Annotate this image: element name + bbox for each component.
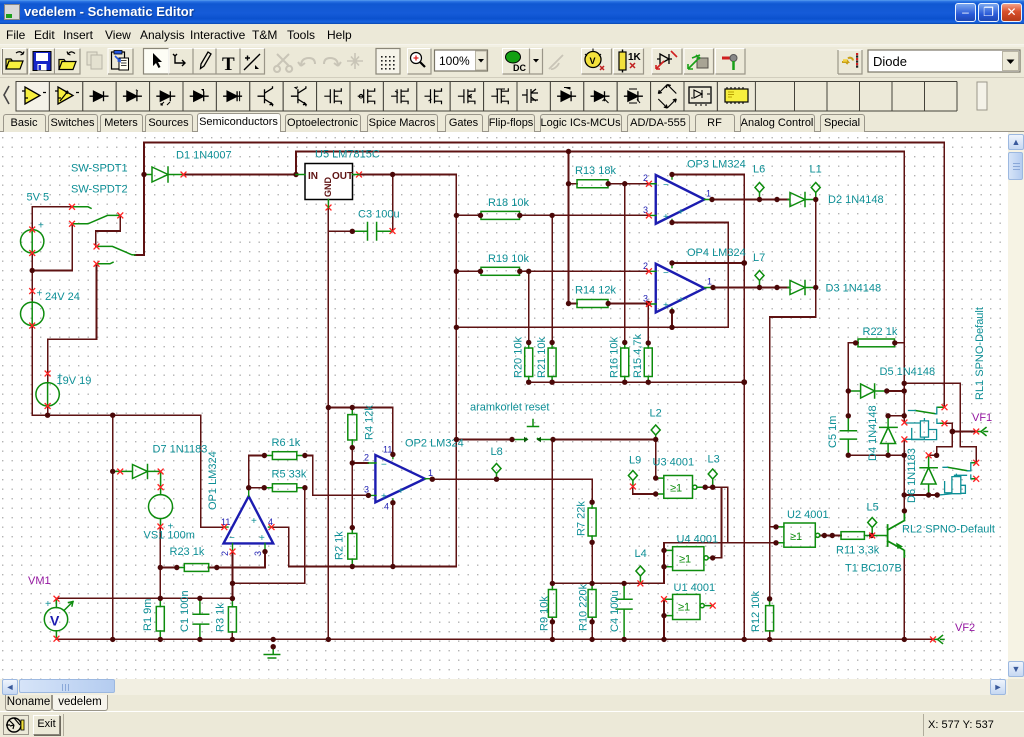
svg-text:VF2: VF2: [955, 622, 975, 634]
VF2 output pin: [933, 635, 944, 643]
palette cell small diode: [550, 82, 583, 112]
svg-text:R14 12k: R14 12k: [575, 285, 616, 297]
tab row: [0, 113, 1024, 132]
wire OP4 output row: [713, 287, 788, 289]
wire +19V rail y415: [32, 414, 201, 416]
svg-text:D5 1N4148: D5 1N4148: [880, 366, 936, 378]
button zoom: [408, 49, 432, 75]
svg-text:−: −: [663, 268, 669, 279]
op-amp OP3 LM324: [656, 175, 705, 224]
svg-text:L1: L1: [810, 164, 822, 176]
op-amp pin stubs OP1: [224, 488, 271, 551]
svg-text:C4 100u: C4 100u: [609, 590, 621, 632]
svg-text:VF1: VF1: [972, 412, 992, 424]
svg-text:+: +: [168, 522, 174, 533]
button open prev: [55, 49, 80, 75]
resistor R15 4,7k: [644, 348, 652, 377]
wire U4 input column: [552, 543, 664, 584]
op-amp OP2 LM324: [375, 455, 425, 502]
svg-text:V: V: [50, 613, 60, 629]
gate U3 4001: [664, 476, 693, 499]
palette cell triac: [617, 82, 650, 112]
wire RL2 coil rail y495: [904, 494, 937, 496]
svg-text:R16 10k: R16 10k: [609, 337, 621, 378]
wire OP2 output row: [432, 479, 592, 502]
palette cell NMOS: [317, 82, 350, 112]
diode D6 1N1183: [920, 455, 937, 495]
svg-text:U2 4001: U2 4001: [787, 509, 829, 521]
wire R7 to R10: [591, 542, 593, 583]
svg-text:≥1: ≥1: [678, 602, 690, 614]
svg-text:U4 4001: U4 4001: [677, 534, 719, 546]
reset switch contacts: [512, 420, 553, 440]
svg-text:U3 4001: U3 4001: [653, 457, 695, 469]
component toolbar: [0, 78, 1024, 113]
wire top rail 2: [296, 151, 904, 153]
capacitor C3 100u: [352, 223, 391, 241]
wire R22 row: [848, 343, 904, 391]
svg-text:−: −: [381, 460, 387, 471]
relay RL2 contact arm: [948, 463, 976, 479]
button wire tool: [169, 49, 193, 75]
button copy disabled: [87, 52, 102, 69]
wire R6 right to OP2 plus: [305, 456, 369, 496]
capacitor C1 100n: [193, 598, 209, 639]
svg-text:T: T: [222, 54, 235, 75]
wire R3 bottom: [231, 632, 233, 639]
wire U2 in2 row: [664, 542, 776, 544]
palette cell varicap: [216, 82, 249, 112]
button probe disabled: [549, 55, 563, 69]
svg-text:Diode: Diode: [873, 54, 907, 69]
title bar: [0, 0, 1024, 24]
wire U4 out riser: [713, 487, 722, 558]
wire VS1 bottom column: [159, 526, 161, 598]
palette cell schottky: [183, 82, 216, 112]
resistor R2 1k: [348, 533, 357, 559]
wire SPDT2 to 19V: [48, 264, 97, 374]
wire R5 right column: [233, 488, 305, 584]
palette cell rectifier block: [684, 82, 717, 112]
svg-text:U5 LM7815C: U5 LM7815C: [315, 149, 380, 161]
wire x904 relay column lower: [903, 440, 905, 511]
ground symbol: [264, 647, 280, 658]
svg-text:L2: L2: [650, 408, 662, 420]
palette cell opamp 2: [49, 82, 82, 112]
svg-text:R9 10k: R9 10k: [539, 596, 551, 631]
svg-text:2: 2: [364, 453, 369, 463]
label pin L2 diamond: [651, 425, 660, 439]
wire R12 bottom: [769, 631, 771, 640]
wire R13 row: [569, 183, 650, 185]
op-amp OP4 LM324: [656, 264, 705, 313]
wire OP4 V+ stub: [672, 262, 744, 264]
status bar: [0, 711, 1024, 737]
button undo disabled: [298, 58, 315, 66]
svg-text:−: −: [663, 180, 669, 191]
resistor R22 1k: [858, 339, 895, 347]
wire V1 V2 column: [31, 207, 33, 415]
wire y407 to OP2 pin11: [328, 408, 393, 455]
gate U1 4001: [673, 594, 700, 619]
wire V1 bottom to SPDT1 contact: [32, 224, 72, 271]
svg-text:IN: IN: [308, 171, 318, 182]
wire D1 anode column: [135, 143, 144, 256]
svg-text:DC: DC: [513, 63, 526, 73]
resistor R14 12k: [577, 300, 608, 308]
switch SW-SPDT1 contact stub: [72, 207, 91, 209]
svg-text:D2 1N4148: D2 1N4148: [828, 194, 884, 206]
source VS1 100m: [149, 495, 173, 519]
zoom combobox: [435, 50, 488, 71]
button pin tool: [716, 49, 746, 75]
wire R23 row: [160, 552, 265, 568]
palette cell NJFET: [383, 82, 416, 112]
component combobox Diode: [868, 50, 1020, 72]
wire x112 column: [112, 415, 114, 639]
svg-text:R20 10k: R20 10k: [513, 337, 525, 378]
wire OP3 V- run: [456, 223, 728, 328]
resistor R19 10k: [481, 267, 520, 275]
svg-text:R15 4,7k: R15 4,7k: [632, 333, 644, 378]
svg-text:+: +: [38, 221, 44, 232]
palette cell IC chip: [717, 82, 755, 112]
svg-text:R13 18k: R13 18k: [575, 165, 616, 177]
wire R18 row: [456, 214, 649, 216]
relay RL1 contact arm: [915, 407, 943, 423]
wire V3 leads: [47, 374, 49, 416]
palette cell zener: [116, 82, 149, 112]
svg-text:R6 1k: R6 1k: [272, 437, 301, 449]
button cursor pressed: [144, 49, 170, 75]
svg-text:R4 12k: R4 12k: [364, 405, 376, 440]
svg-text:D1 1N4007: D1 1N4007: [176, 150, 232, 162]
wire U5 OUT run: [359, 174, 456, 176]
wire R10 bottom: [591, 617, 593, 639]
switch SW-SPDT2 contact stub: [97, 262, 114, 264]
wire U5 GND down: [328, 208, 352, 232]
resistor R21 10k: [548, 348, 556, 377]
resistor R5 33k: [272, 484, 296, 492]
svg-text:L9: L9: [629, 455, 641, 467]
svg-text:2: 2: [220, 551, 230, 556]
palette cell NPN: [250, 82, 283, 112]
label pin L6 diamond: [755, 183, 764, 200]
wire U1 input column: [663, 599, 665, 639]
svg-text:OP4 LM324: OP4 LM324: [687, 247, 746, 259]
wire OP4 V- stub: [671, 311, 673, 327]
toolbar row 1: [0, 44, 1024, 78]
X pin marks: [181, 172, 186, 177]
op-amp pin stubs OP2: [368, 455, 431, 503]
svg-text:D6 1N1183: D6 1N1183: [906, 448, 918, 503]
wire GND column x328: [327, 231, 329, 639]
canvas with schematic: [0, 132, 1008, 679]
resistor R12 10k: [766, 606, 774, 631]
resistor R1 9m: [156, 607, 164, 632]
svg-text:−: −: [229, 533, 235, 544]
svg-text:L4: L4: [635, 548, 647, 560]
diode D3 1N4148: [788, 281, 815, 295]
voltage source V3 19V: [36, 383, 59, 406]
svg-text:R5 33k: R5 33k: [272, 469, 307, 481]
gate U4 4001: [673, 547, 704, 571]
svg-text:+: +: [57, 372, 63, 383]
svg-text:100%: 100%: [439, 54, 470, 68]
wire L3 node to U2: [705, 487, 728, 543]
svg-text:+: +: [678, 207, 684, 218]
voltage source V1 5V: [21, 230, 44, 253]
svg-text:L8: L8: [491, 446, 503, 458]
menu bar: [0, 24, 1024, 44]
wire x624 R16 column: [624, 184, 626, 343]
svg-text:R12 10k: R12 10k: [750, 591, 762, 632]
svg-text:+: +: [678, 295, 684, 306]
svg-text:1: 1: [707, 277, 712, 287]
svg-text:L5: L5: [867, 502, 879, 514]
wire C5 top link: [847, 391, 849, 416]
svg-text:R10 220k: R10 220k: [578, 583, 590, 631]
svg-text:RL1 SPNO-Default: RL1 SPNO-Default: [974, 307, 986, 400]
reset switch arrow ticks: [524, 437, 529, 443]
svg-text:SW-SPDT1: SW-SPDT1: [71, 163, 128, 175]
svg-text:RL2 SPNO-Default: RL2 SPNO-Default: [902, 524, 995, 536]
button open: [2, 49, 28, 75]
palette cell opamp (selected): [16, 82, 49, 112]
button redo disabled: [324, 58, 341, 66]
resistor R7 22k: [588, 508, 596, 536]
svg-text:24V 24: 24V 24: [45, 291, 80, 303]
diode D1 1N4007: [144, 167, 184, 182]
svg-text:1: 1: [428, 468, 433, 478]
palette left nav chevron: [4, 86, 9, 104]
junction dots: [141, 172, 146, 177]
wire RL1 feed y383: [904, 383, 976, 462]
svg-text:GND: GND: [323, 177, 333, 198]
button save: [30, 49, 55, 75]
wire x568 column: [568, 152, 570, 304]
resistor R16 10k: [621, 348, 629, 377]
wire D4 top link: [888, 415, 904, 417]
resistor R20 10k: [525, 348, 533, 377]
wire OUT to C3: [392, 175, 394, 231]
relay RL2 contact frame: [943, 463, 971, 479]
palette cell PJFET: [417, 82, 450, 112]
svg-text:R1 9m: R1 9m: [142, 599, 154, 631]
wire D5 cathode run: [887, 390, 905, 392]
button grid toggle: [376, 49, 400, 75]
svg-text:D7 1N1183: D7 1N1183: [153, 444, 208, 456]
capacitor C5 1m: [840, 416, 856, 455]
svg-text:R18 10k: R18 10k: [488, 197, 529, 209]
button delete wire: [240, 49, 265, 75]
svg-text:V: V: [590, 56, 596, 66]
svg-text:+: +: [37, 289, 43, 300]
svg-text:1: 1: [706, 189, 711, 199]
svg-text:D3 1N4148: D3 1N4148: [826, 283, 882, 295]
resistor R6 1k: [272, 452, 296, 460]
svg-text:+: +: [663, 301, 669, 312]
svg-text:≥1: ≥1: [679, 554, 691, 566]
button voltmeter: [582, 49, 612, 75]
label pin L9 diamond: [628, 471, 637, 487]
svg-text:aramkorlet reset: aramkorlet reset: [470, 402, 549, 414]
wire T1 emitter to rail: [903, 557, 905, 639]
wire x552 R21 column: [551, 215, 553, 343]
wire OP1 pin2 column: [232, 552, 234, 599]
label pin L3 diamond: [708, 469, 717, 487]
wire U2 out to R11: [820, 535, 841, 537]
svg-text:+: +: [663, 212, 669, 223]
label pin L8 diamond: [492, 464, 501, 479]
switch SW-SPDT1 arm: [72, 215, 119, 223]
svg-text:R21 10k: R21 10k: [536, 337, 548, 378]
wire x528 R20 column: [528, 271, 530, 343]
relay RL1 contact frame: [909, 407, 940, 423]
wire SPDT1 common down: [96, 215, 120, 246]
svg-text:L3: L3: [708, 454, 720, 466]
wire RL1 NO to VF1 node: [945, 423, 953, 431]
resistor R10 220k: [588, 590, 596, 618]
relay RL2 body: [937, 474, 965, 495]
wire x456 column: [272, 175, 457, 567]
svg-text:D4 1N4148: D4 1N4148: [867, 405, 879, 461]
palette end slider: [977, 82, 987, 110]
wire R4 to OP2 minus and R2: [352, 448, 368, 528]
meter VM1: [44, 608, 67, 631]
wire OP2 pin4 down: [392, 503, 394, 567]
label pin L4 diamond: [636, 566, 645, 583]
palette cell MOSFET3: [450, 82, 483, 112]
resistor R11 3,3k: [841, 532, 864, 540]
transistor T1 BC107B: [888, 511, 905, 557]
button cut disabled: [274, 54, 292, 72]
svg-text:T1 BC107B: T1 BC107B: [845, 563, 902, 575]
palette cell diode bridge: [651, 82, 684, 112]
op-amp pin stubs OP4: [649, 263, 712, 311]
wire R19 row: [456, 270, 649, 272]
svg-text:R19 10k: R19 10k: [488, 253, 529, 265]
wire L9 to U3: [633, 487, 656, 494]
wire R14 row: [569, 303, 650, 305]
relay RL1 body: [906, 419, 937, 440]
wire R9 bottom: [551, 617, 553, 639]
label pin L5 diamond: [868, 518, 877, 536]
svg-text:OUT: OUT: [332, 171, 353, 182]
wire OP3 V+ to x744 column: [672, 175, 744, 640]
diode D4 1N4148: [880, 416, 897, 455]
palette empty separators: [795, 82, 958, 112]
wire VF1 row: [952, 431, 975, 433]
svg-text:R22 1k: R22 1k: [863, 326, 898, 338]
button pen: [193, 49, 216, 75]
svg-text:SW-SPDT2: SW-SPDT2: [71, 184, 128, 196]
wire resistor-bottom rail y382: [529, 381, 745, 383]
svg-text:R7 22k: R7 22k: [576, 501, 588, 536]
palette cell thyristor: [584, 82, 617, 112]
wire snubber bottom rail y455: [848, 454, 904, 456]
capacitor C4 100u: [616, 583, 632, 639]
svg-text:U1 4001: U1 4001: [674, 582, 716, 594]
resistor R18 10k: [481, 211, 520, 219]
diode D2 1N4148: [788, 193, 815, 207]
button paste: [108, 49, 133, 75]
palette cell IGBT: [517, 82, 550, 112]
palette cell PMOS: [350, 82, 383, 112]
svg-text:R23 1k: R23 1k: [170, 546, 205, 558]
svg-text:R2 1k: R2 1k: [334, 531, 346, 560]
resistor R3 1k: [228, 607, 236, 632]
svg-text:5V 5: 5V 5: [27, 192, 50, 204]
wire VF1 node to D6: [929, 432, 952, 456]
button component list: [838, 50, 862, 74]
toolbar button bevels: [2, 49, 862, 75]
diode D7 1N1183: [113, 465, 161, 479]
resistor R13 18k: [577, 180, 608, 188]
wire D1 cathode to U5 IN: [184, 152, 297, 175]
wire x904 relay column upper: [903, 152, 905, 423]
button text T: [216, 49, 240, 76]
gate U2 4001: [784, 523, 815, 547]
button diode arrow: [652, 49, 682, 75]
wire top rail 1: [144, 143, 944, 407]
svg-text:≥1: ≥1: [670, 483, 682, 495]
svg-text:1K: 1K: [628, 52, 642, 63]
svg-text:C3 100u: C3 100u: [358, 209, 400, 221]
voltage source V2 24V: [21, 302, 44, 325]
resistor R23 1k: [184, 564, 208, 572]
svg-text:+: +: [45, 599, 51, 610]
wire D2/D3 cathode column: [770, 200, 816, 599]
svg-text:+: +: [259, 533, 265, 544]
resistor R4 12k: [348, 415, 357, 440]
svg-text:L7: L7: [753, 252, 765, 264]
VF1 output pin: [977, 428, 988, 436]
svg-text:R11 3,3k: R11 3,3k: [836, 545, 880, 557]
svg-text:+: +: [398, 486, 404, 497]
label pin L1 diamond: [811, 183, 820, 200]
svg-text:OP3 LM324: OP3 LM324: [687, 159, 746, 171]
scrollbars: [1008, 132, 1024, 679]
svg-text:+: +: [251, 516, 257, 527]
button resistance 1K: [614, 49, 644, 75]
switch SW-SPDT2 arm: [97, 246, 136, 255]
wire OP1 output riser: [249, 456, 265, 488]
svg-text:4: 4: [384, 502, 389, 512]
palette cell MOSFET4: [484, 82, 517, 112]
button DC mode: [503, 49, 543, 75]
label pin L7 diamond: [755, 271, 764, 288]
svg-text:L6: L6: [753, 164, 765, 176]
op-amp pin stubs OP3: [649, 175, 711, 223]
wire OP1 pin11 run: [201, 415, 225, 527]
wire x552 switch to R9: [551, 440, 553, 584]
wire V1 top to SPDT1: [32, 206, 71, 208]
wire x648 R15 column: [647, 304, 649, 344]
wire bottom ground rail: [56, 638, 932, 640]
button signal analyser: [684, 49, 714, 75]
palette cell PNP: [283, 82, 316, 112]
op-amp OP1 LM324: [224, 496, 274, 543]
svg-text:≥1: ≥1: [790, 531, 802, 543]
svg-text:3: 3: [253, 551, 263, 556]
palette cell diode: [83, 82, 116, 112]
svg-text:OP1 LM324: OP1 LM324: [207, 451, 219, 510]
diode D5 1N4148: [848, 384, 886, 398]
svg-text:C5 1m: C5 1m: [827, 416, 839, 448]
wire U2 in1 stub: [770, 526, 776, 528]
svg-text:R3 1k: R3 1k: [215, 603, 227, 632]
